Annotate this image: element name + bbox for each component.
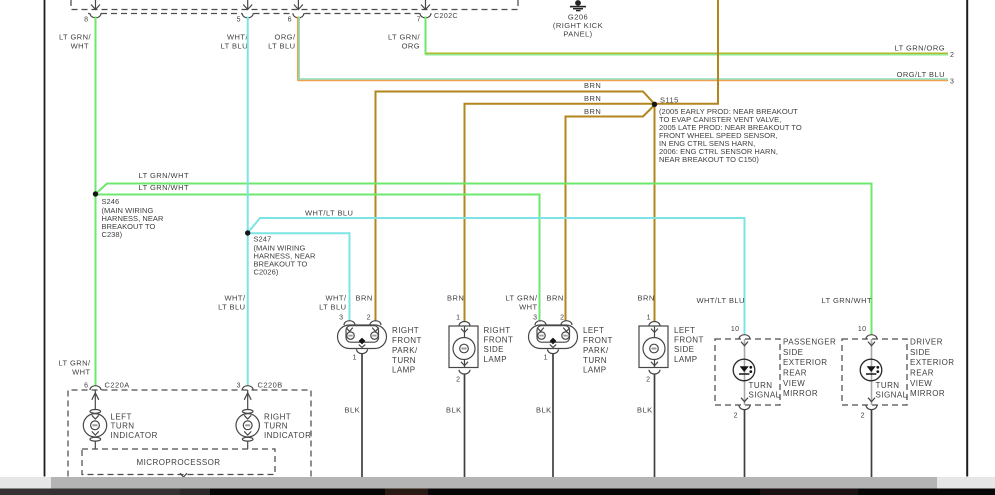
svg-text:EXTERIOR: EXTERIOR xyxy=(783,358,828,367)
svg-text:LAMP: LAMP xyxy=(674,355,698,364)
wire LT GRN/WHT upper branch to driver mirror xyxy=(96,184,872,335)
svg-text:LT BLU: LT BLU xyxy=(218,303,245,312)
wire WHT/LT BLU lower branch to right front park/turn lamp xyxy=(248,233,350,321)
wire LT GRN/WHT main vertical pin8 to C220A xyxy=(95,17,97,387)
svg-text:5: 5 xyxy=(237,17,241,24)
pin 7 socket cup xyxy=(420,13,431,18)
svg-text:SIDE: SIDE xyxy=(910,348,930,357)
svg-text:8: 8 xyxy=(84,17,88,24)
lamp connector LEFT FRONT SIDE LAMP xyxy=(639,321,668,374)
svg-text:LT GRN/WHT: LT GRN/WHT xyxy=(139,171,189,180)
svg-text:TURN: TURN xyxy=(876,381,900,390)
svg-text:LT GRN/: LT GRN/ xyxy=(505,294,538,303)
svg-text:TURN: TURN xyxy=(264,422,288,431)
svg-text:ORG/LT BLU: ORG/LT BLU xyxy=(897,70,945,79)
svg-text:BRN: BRN xyxy=(638,294,655,303)
svg-text:LEFT: LEFT xyxy=(674,326,695,335)
svg-text:7: 7 xyxy=(417,17,421,24)
wire ORG/LT BLU from pin6 xyxy=(297,17,299,81)
svg-text:LEFT: LEFT xyxy=(111,412,132,421)
lamp connector LEFT FRONT PARK/TURN LAMP xyxy=(529,321,578,354)
svg-text:LT BLU: LT BLU xyxy=(268,42,295,51)
wire BLK from right front side lamp xyxy=(464,374,466,477)
svg-text:PARK/: PARK/ xyxy=(583,346,609,355)
svg-text:VIEW: VIEW xyxy=(783,379,805,388)
taskbar light strip xyxy=(0,477,995,489)
svg-text:2: 2 xyxy=(734,413,738,420)
svg-text:WHT: WHT xyxy=(519,303,537,312)
svg-text:2: 2 xyxy=(367,315,371,322)
mirror connector passenger turn signal U-box xyxy=(715,335,780,410)
svg-text:C220A: C220A xyxy=(105,381,130,390)
svg-text:FRONT: FRONT xyxy=(583,336,613,345)
arrow into pin 8 xyxy=(95,0,97,9)
svg-text:C2026): C2026) xyxy=(254,268,279,277)
lamp LEFT TURN INDICATOR xyxy=(83,390,106,449)
svg-text:C220B: C220B xyxy=(258,381,283,390)
svg-text:WHT/LT BLU: WHT/LT BLU xyxy=(305,209,353,218)
svg-text:LT GRN/WHT: LT GRN/WHT xyxy=(822,296,872,305)
svg-text:NEAR BREAKOUT TO C150): NEAR BREAKOUT TO C150) xyxy=(659,155,759,164)
svg-text:SIGNAL: SIGNAL xyxy=(876,391,908,400)
svg-text:1: 1 xyxy=(544,355,548,362)
wire BRN branch 3 to left front park/turn lamp xyxy=(566,105,655,322)
wire BRN branch 1 to right front park/turn lamp xyxy=(376,92,655,322)
svg-text:BLK: BLK xyxy=(637,406,653,415)
svg-text:S246: S246 xyxy=(102,197,120,206)
arrow into pin 7 xyxy=(425,0,427,9)
svg-text:SIDE: SIDE xyxy=(783,348,803,357)
svg-text:LT GRN/: LT GRN/ xyxy=(59,33,92,42)
svg-text:PANEL): PANEL) xyxy=(563,30,592,39)
svg-text:DRIVER: DRIVER xyxy=(910,338,943,347)
wire BLK from right front park/turn lamp xyxy=(361,354,363,477)
svg-text:LT GRN/: LT GRN/ xyxy=(388,33,421,42)
svg-text:2: 2 xyxy=(950,52,954,59)
svg-text:BRN: BRN xyxy=(447,294,464,303)
svg-text:LT GRN/ORG: LT GRN/ORG xyxy=(895,44,945,53)
microprocessor dashed box xyxy=(82,449,275,475)
svg-text:3: 3 xyxy=(237,383,241,390)
svg-text:BLK: BLK xyxy=(446,406,462,415)
wire WHT/LT BLU main vertical pin5 to C220B xyxy=(247,17,249,387)
wire BRN down to left front side lamp xyxy=(654,104,656,322)
arrow into pin 6 xyxy=(297,0,299,9)
svg-text:S247: S247 xyxy=(254,235,272,244)
svg-text:EXTERIOR: EXTERIOR xyxy=(910,358,955,367)
svg-text:RIGHT: RIGHT xyxy=(264,412,291,421)
svg-text:10: 10 xyxy=(858,326,867,333)
svg-text:SIDE: SIDE xyxy=(674,345,694,354)
lamp connector RIGHT FRONT SIDE LAMP xyxy=(449,321,478,374)
page left border xyxy=(44,0,46,477)
connector C220A socket xyxy=(90,386,101,390)
wire LT GRN/ORG from pin7 xyxy=(425,17,427,55)
wire BLK from driver mirror xyxy=(871,410,873,477)
wire BLK from left front park/turn lamp xyxy=(552,354,554,477)
svg-text:C238): C238) xyxy=(102,230,123,239)
svg-text:TURN: TURN xyxy=(583,356,607,365)
mirror connector driver turn signal U-box xyxy=(842,335,907,410)
connector C220B socket xyxy=(242,386,253,390)
svg-text:INDICATOR: INDICATOR xyxy=(264,431,311,440)
svg-text:WHT/: WHT/ xyxy=(227,33,248,42)
svg-text:FRONT: FRONT xyxy=(392,336,422,345)
svg-text:PASSENGER: PASSENGER xyxy=(783,338,836,347)
splice S115 junction dot xyxy=(652,102,657,107)
svg-text:PARK/: PARK/ xyxy=(392,346,418,355)
arrow below microprocessor xyxy=(180,473,187,477)
instrument cluster dashed box xyxy=(68,390,311,477)
svg-text:ORG: ORG xyxy=(402,42,420,51)
lamp connector RIGHT FRONT PARK/TURN LAMP xyxy=(338,321,387,354)
svg-text:REAR: REAR xyxy=(783,369,807,378)
svg-text:TURN: TURN xyxy=(392,356,416,365)
svg-text:FRONT: FRONT xyxy=(484,336,514,345)
svg-text:LT GRN/WHT: LT GRN/WHT xyxy=(139,183,189,192)
connector C202C dashed row xyxy=(88,13,90,15)
svg-text:2: 2 xyxy=(560,315,564,322)
svg-text:BRN: BRN xyxy=(356,294,373,303)
svg-text:3: 3 xyxy=(950,79,954,86)
splice S247 junction dot xyxy=(245,230,250,235)
pin 5 socket cup xyxy=(242,13,253,18)
svg-text:1: 1 xyxy=(647,315,651,322)
svg-text:6: 6 xyxy=(84,383,88,390)
svg-text:1: 1 xyxy=(456,315,460,322)
svg-text:BRN: BRN xyxy=(584,94,601,103)
wire WHT/LT BLU upper branch to passenger mirror xyxy=(248,218,745,335)
svg-text:BLK: BLK xyxy=(536,406,552,415)
svg-text:MICROPROCESSOR: MICROPROCESSOR xyxy=(136,458,220,467)
svg-text:WHT/LT BLU: WHT/LT BLU xyxy=(697,296,745,305)
svg-text:TURN: TURN xyxy=(111,422,135,431)
svg-text:3: 3 xyxy=(533,315,537,322)
svg-text:10: 10 xyxy=(731,326,740,333)
svg-text:2: 2 xyxy=(456,377,460,384)
wire LT GRN/WHT lower branch to left front park/turn lamp xyxy=(96,195,540,322)
svg-text:MIRROR: MIRROR xyxy=(783,389,818,398)
svg-text:RIGHT: RIGHT xyxy=(484,326,511,335)
wire BRN branch 2 trunk from top component xyxy=(465,0,719,322)
svg-text:BRN: BRN xyxy=(584,107,601,116)
svg-text:3: 3 xyxy=(339,315,343,322)
svg-text:WHT/: WHT/ xyxy=(225,294,246,303)
wire BLK from passenger mirror xyxy=(744,410,746,477)
svg-text:LT BLU: LT BLU xyxy=(221,42,248,51)
svg-text:LEFT: LEFT xyxy=(583,326,604,335)
svg-text:2: 2 xyxy=(861,413,865,420)
svg-text:REAR: REAR xyxy=(910,369,934,378)
svg-text:LAMP: LAMP xyxy=(583,365,607,374)
svg-text:BLK: BLK xyxy=(345,406,361,415)
svg-text:MIRROR: MIRROR xyxy=(910,389,945,398)
svg-text:C202C: C202C xyxy=(434,13,458,20)
svg-text:S115: S115 xyxy=(660,96,679,105)
svg-text:INDICATOR: INDICATOR xyxy=(111,431,158,440)
svg-text:LT BLU: LT BLU xyxy=(319,303,346,312)
svg-text:LAMP: LAMP xyxy=(484,355,508,364)
svg-text:LT GRN/: LT GRN/ xyxy=(58,359,91,368)
arrow into pin 5 xyxy=(247,0,249,9)
ground G206 symbol xyxy=(575,0,581,6)
taskbar dark strip xyxy=(0,489,995,495)
svg-text:VIEW: VIEW xyxy=(910,379,932,388)
svg-text:WHT/: WHT/ xyxy=(326,294,347,303)
svg-text:BRN: BRN xyxy=(584,81,601,90)
lamp RIGHT TURN INDICATOR xyxy=(236,390,259,449)
svg-text:1: 1 xyxy=(353,355,357,362)
svg-text:2: 2 xyxy=(646,377,650,384)
svg-text:TURN: TURN xyxy=(749,381,773,390)
page right border xyxy=(966,0,968,477)
wire BLK from left front side lamp xyxy=(654,374,656,477)
svg-text:RIGHT: RIGHT xyxy=(392,326,419,335)
svg-text:SIGNAL: SIGNAL xyxy=(749,391,781,400)
pin 6 socket cup xyxy=(293,13,304,18)
splice S246 junction dot xyxy=(93,191,98,196)
dashed box upper component bottom edge xyxy=(71,0,518,10)
svg-text:6: 6 xyxy=(288,17,292,24)
svg-text:LAMP: LAMP xyxy=(392,365,416,374)
svg-text:ORG/: ORG/ xyxy=(275,33,296,42)
pin 8 socket cup xyxy=(90,13,101,18)
svg-text:BRN: BRN xyxy=(547,294,564,303)
svg-text:WHT: WHT xyxy=(71,42,89,51)
svg-text:SIDE: SIDE xyxy=(484,345,504,354)
svg-text:WHT: WHT xyxy=(72,368,90,377)
svg-text:FRONT: FRONT xyxy=(674,336,704,345)
